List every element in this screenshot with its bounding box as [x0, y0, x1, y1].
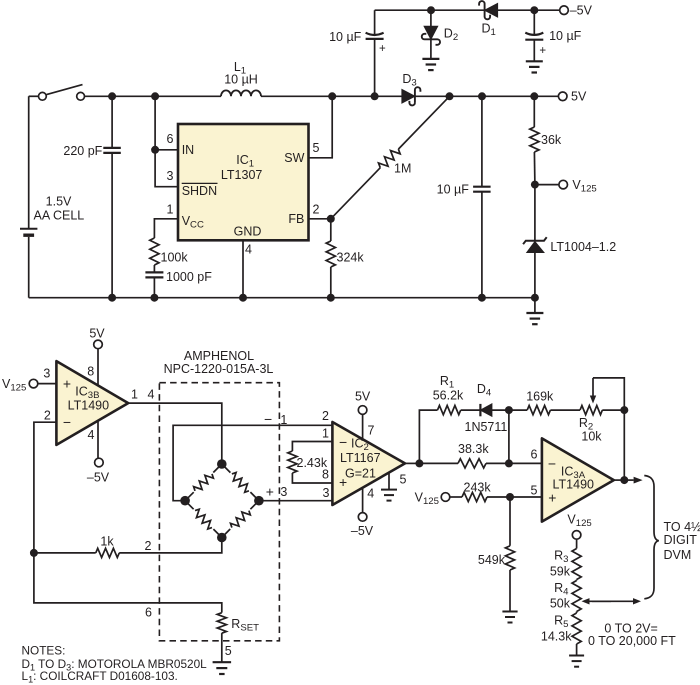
wire V125 stub — [535, 184, 559, 186]
svg-text:LT1004–1.2: LT1004–1.2 — [550, 240, 616, 254]
capacitor C3 10uF — [437, 182, 491, 196]
pin 3 label — [167, 169, 174, 183]
op-amp IC2 LT1167 — [332, 422, 405, 505]
wire ground rail — [29, 297, 535, 299]
ground 549k — [502, 612, 517, 623]
conn pin6 label — [145, 605, 152, 619]
svg-text:−: − — [264, 411, 272, 427]
wire R4-R5 — [576, 612, 578, 614]
wire 243k to pin5 — [487, 496, 542, 498]
potentiometer R2 10k — [579, 406, 603, 444]
wire IN pin — [155, 149, 178, 151]
terminal V125 243k — [415, 490, 450, 507]
pin1 label ic3b — [131, 387, 138, 401]
ic3a pin6 label — [531, 448, 538, 462]
node FB — [327, 215, 335, 223]
ground C2 — [526, 61, 543, 72]
resistor 324k — [326, 241, 364, 267]
resistor R1 56.2k — [433, 374, 464, 415]
svg-text:56.2k: 56.2k — [433, 389, 464, 403]
svg-text:4: 4 — [148, 387, 155, 401]
svg-text:−: − — [339, 434, 347, 450]
wire cap2 bottom — [533, 40, 535, 62]
conn pin5 label — [225, 644, 232, 658]
wire ic2 pin5 — [388, 473, 390, 490]
plus sign C2 — [539, 45, 546, 57]
wire cap1 top — [374, 10, 376, 34]
wire battery bottom — [28, 237, 30, 298]
svg-text:10 µF: 10 µF — [329, 30, 362, 44]
wire IN/SHDN branch — [155, 96, 178, 186]
wire 36k top — [533, 96, 535, 127]
wire 5V rail right — [415, 95, 558, 97]
terminal -5V ic3b — [87, 458, 110, 485]
wire 5V rail left — [85, 95, 221, 97]
wire RG top — [292, 442, 332, 452]
capacitor 1000pF — [145, 270, 212, 284]
resistor R5 14.3k — [541, 613, 581, 644]
wire SW pin — [309, 96, 333, 158]
svg-text:3: 3 — [43, 367, 50, 381]
svg-text:−: − — [63, 414, 71, 430]
wire D4 down — [508, 410, 510, 463]
wire to RSET — [34, 553, 222, 613]
node pin2/1k junction — [30, 549, 38, 557]
wire FB to 324k — [330, 219, 332, 241]
conn pin1 label — [280, 413, 287, 427]
terminal -5V ic2 — [351, 513, 374, 539]
zener LT1004-1.2 — [523, 237, 616, 254]
wire up to R1 row — [419, 410, 437, 463]
wire 1000pF to rail — [153, 277, 155, 297]
wire 100k to cap — [153, 265, 155, 272]
node pin6 junction — [505, 459, 513, 467]
wire 1M lower — [331, 168, 381, 219]
R2 wiper arrow — [590, 378, 596, 404]
svg-text:5V: 5V — [89, 326, 105, 340]
wire zener top — [534, 185, 536, 241]
wire ic2 pin7 — [362, 414, 364, 439]
wire pin3 — [38, 383, 57, 385]
wire R3-R4 — [576, 580, 578, 581]
node gnd x112 — [108, 294, 116, 302]
svg-text:1: 1 — [280, 413, 287, 427]
svg-text:0 TO 20,000 FT: 0 TO 20,000 FT — [588, 634, 676, 648]
ic3a pin5 label — [531, 484, 538, 498]
diode D1 — [479, 1, 498, 38]
node V125 — [531, 181, 539, 189]
pin 4 label — [245, 243, 252, 257]
wire VCC pin — [154, 219, 178, 238]
node bridge bottom — [217, 533, 227, 543]
wire RSET to gnd — [221, 633, 223, 662]
ground ladder — [569, 656, 584, 667]
node bridge left — [180, 496, 190, 506]
svg-text:+: + — [539, 45, 546, 57]
wire pin8 — [97, 349, 99, 386]
svg-text:4: 4 — [367, 486, 374, 500]
svg-text:+: + — [63, 375, 71, 391]
node pin5 junction — [506, 493, 514, 501]
svg-text:1000 pF: 1000 pF — [166, 270, 212, 284]
svg-text:6: 6 — [145, 605, 152, 619]
svg-text:5: 5 — [225, 644, 232, 658]
svg-text:+: + — [548, 489, 556, 505]
wire pin2 to 1k — [34, 552, 96, 554]
wire RG bottom — [292, 473, 332, 483]
svg-text:4: 4 — [88, 428, 95, 442]
plus label — [266, 484, 274, 500]
node ic2 out — [415, 459, 423, 467]
node R2 out — [620, 406, 628, 414]
wire cap3 bottom — [481, 192, 483, 298]
ic2 pin4 label — [367, 486, 374, 500]
wire D2 to ground — [430, 39, 432, 59]
svg-text:243k: 243k — [464, 480, 492, 494]
svg-text:GND: GND — [234, 224, 262, 238]
svg-text:−: − — [548, 455, 556, 471]
node IN junction — [151, 146, 159, 154]
terminal -5V — [560, 4, 593, 18]
svg-text:SW: SW — [284, 151, 304, 165]
svg-text:–5V: –5V — [570, 4, 593, 18]
minus label — [264, 411, 272, 427]
svg-text:5: 5 — [313, 141, 320, 155]
wire top -5V rail — [375, 9, 560, 11]
svg-text:+: + — [379, 43, 386, 55]
capacitor C1 10uF — [329, 30, 384, 44]
wire FB pin — [309, 218, 331, 220]
ic2 pin2 label — [322, 409, 329, 423]
wire V125 to 243k — [450, 496, 462, 498]
node rail x482 — [478, 92, 486, 100]
ic2 pin3 label — [323, 486, 330, 500]
wire out to 38.3k — [419, 462, 458, 464]
svg-text:LT1490: LT1490 — [553, 478, 595, 492]
node rail x534 — [530, 92, 538, 100]
svg-text:1k: 1k — [100, 535, 114, 549]
node bridge right — [254, 496, 264, 506]
ground D2 — [422, 59, 439, 70]
node rail x374 — [371, 92, 379, 100]
wire rail to ground sym — [534, 298, 536, 313]
svg-text:G=21: G=21 — [345, 466, 376, 480]
svg-text:IN: IN — [182, 143, 195, 157]
resistor 100k — [150, 238, 189, 265]
wire R2 right — [602, 409, 624, 411]
wire 220pF bottom — [111, 153, 113, 298]
node top-left junction — [427, 6, 435, 14]
conn pin2 label — [145, 539, 152, 553]
svg-text:1M: 1M — [394, 162, 411, 176]
svg-text:38.3k: 38.3k — [458, 442, 489, 456]
node gnd x534 — [531, 294, 539, 302]
svg-text:10 µH: 10 µH — [224, 73, 258, 87]
node top-right junction — [530, 6, 538, 14]
R4 wiper double arrow — [582, 598, 642, 604]
ic2 pin7 label — [368, 423, 375, 437]
svg-text:169k: 169k — [526, 390, 554, 404]
pin3 label — [43, 367, 50, 381]
diode D3 — [402, 72, 421, 106]
svg-text:1.5V: 1.5V — [46, 194, 72, 208]
svg-text:TO 4½: TO 4½ — [664, 520, 700, 534]
svg-text:5V: 5V — [571, 90, 587, 104]
resistor 2.43k — [288, 451, 328, 473]
op-amp U1 IC1 LT1307 box — [178, 124, 309, 240]
terminal 5V — [558, 90, 587, 104]
resistor 549k — [478, 546, 515, 570]
node D4 junction — [505, 406, 513, 414]
svg-text:4: 4 — [245, 243, 252, 257]
svg-text:LT1490: LT1490 — [68, 399, 110, 413]
wire pin2 — [34, 422, 57, 553]
svg-text:10 µF: 10 µF — [549, 29, 582, 43]
resistor R4 50k — [550, 581, 581, 612]
svg-text:AA CELL: AA CELL — [34, 209, 85, 223]
wire zener bottom — [534, 253, 536, 298]
svg-text:50k: 50k — [550, 596, 571, 610]
svg-text:NPC-1220-015A-3L: NPC-1220-015A-3L — [164, 362, 274, 376]
ground main — [526, 313, 543, 324]
node ic3a out — [620, 476, 628, 484]
notes text — [22, 644, 208, 685]
node gnd x330 — [327, 294, 335, 302]
resistor 38.3k — [458, 442, 489, 468]
ic2 pin5 label — [400, 472, 407, 486]
svg-text:5: 5 — [400, 472, 407, 486]
wire 549k top — [509, 497, 511, 546]
svg-text:DIGIT: DIGIT — [664, 533, 698, 547]
wire 169k to R2 — [550, 409, 580, 411]
wire battery top — [28, 96, 30, 228]
svg-text:1: 1 — [167, 203, 174, 217]
svg-text:3: 3 — [323, 486, 330, 500]
wire 1M upper — [398, 96, 449, 149]
svg-text:3: 3 — [167, 169, 174, 183]
svg-text:324k: 324k — [337, 250, 365, 264]
svg-text:10 µF: 10 µF — [437, 182, 470, 196]
node rail x449 — [446, 92, 454, 100]
node rail x112 — [108, 92, 116, 100]
svg-text:8: 8 — [87, 364, 94, 378]
wire R2 loop — [593, 378, 624, 410]
wire cap1 bottom — [374, 39, 376, 96]
ground RSET — [213, 662, 232, 674]
resistor 1M — [377, 146, 411, 176]
resistor 36k — [530, 127, 562, 152]
svg-text:NOTES:: NOTES: — [22, 644, 66, 658]
wire ladder top — [576, 539, 578, 548]
pin 5 label — [313, 141, 320, 155]
node rail x155 — [151, 92, 159, 100]
wire D4 to 169k — [491, 409, 528, 411]
resistor R3 59k — [550, 548, 581, 579]
node gnd x243 — [239, 294, 247, 302]
svg-text:5: 5 — [531, 484, 538, 498]
terminal V125 — [559, 178, 597, 195]
wire 324k to rail — [330, 267, 332, 298]
resistor 243k — [462, 480, 491, 501]
svg-text:LT1167: LT1167 — [340, 451, 381, 465]
wire ic2 out — [405, 462, 419, 464]
svg-text:220 pF: 220 pF — [63, 144, 102, 158]
wire D2 top — [430, 10, 432, 28]
svg-text:6: 6 — [167, 132, 174, 146]
resistor RSET — [217, 613, 259, 634]
svg-text:2: 2 — [44, 409, 51, 423]
svg-text:14.3k: 14.3k — [541, 629, 572, 643]
bridge arm top-right — [222, 464, 259, 501]
svg-text:L1: COILCRAFT D01608-103.: L1: COILCRAFT D01608-103. — [22, 669, 178, 685]
svg-text:DVM: DVM — [664, 548, 692, 562]
svg-text:36k: 36k — [541, 133, 562, 147]
brace to DVM — [644, 476, 659, 599]
svg-text:2.43k: 2.43k — [297, 456, 328, 470]
op-amp IC3B LT1490 — [56, 361, 128, 445]
wire 220pF top — [111, 96, 113, 148]
wire ic3b output — [128, 403, 222, 464]
svg-text:5V: 5V — [355, 390, 371, 404]
svg-text:2: 2 — [313, 203, 320, 217]
label 0 TO 2V= — [604, 621, 657, 635]
wire GND pin — [242, 240, 244, 297]
svg-text:1: 1 — [322, 426, 329, 440]
terminal 5V ic2 — [355, 390, 371, 415]
svg-text:6: 6 — [531, 448, 538, 462]
arrow ic3a out — [624, 477, 642, 484]
wire cap3 top — [481, 96, 483, 186]
wire R2 down to out — [623, 410, 625, 480]
wire ladder bottom — [576, 644, 578, 656]
pin 2 label — [313, 203, 320, 217]
battery 1.5V AA — [20, 194, 84, 235]
svg-text:10k: 10k — [581, 429, 602, 443]
bridge arm bot-right — [222, 501, 259, 538]
inductor L1 — [221, 60, 261, 96]
svg-text:2: 2 — [322, 409, 329, 423]
wire bridge minus — [173, 425, 332, 500]
svg-text:FB: FB — [288, 212, 304, 226]
wire 36k bottom — [533, 152, 536, 185]
wire pin4 ic3b — [97, 421, 99, 459]
wire 38.3k to pin6 — [486, 462, 542, 464]
pin4conn label — [148, 387, 155, 401]
terminal V125 ladder — [567, 513, 591, 540]
svg-text:2: 2 — [145, 539, 152, 553]
svg-text:59k: 59k — [550, 564, 571, 578]
resistor 1k — [96, 535, 120, 558]
diode D2 — [422, 26, 458, 45]
ic2 pin8 label — [322, 467, 329, 481]
terminal 5V ic3b — [89, 326, 105, 348]
bridge arm bot-left — [185, 501, 222, 538]
terminal V125 in3 — [2, 377, 38, 394]
wire R1 to D4 — [461, 409, 480, 411]
svg-text:–5V: –5V — [87, 471, 110, 485]
node gnd x154 — [150, 294, 158, 302]
wire 1k to bridge — [119, 538, 222, 553]
wire ic3a out — [614, 479, 625, 481]
conn pin3 label — [280, 485, 287, 499]
svg-text:1N5711: 1N5711 — [465, 420, 508, 434]
svg-text:1: 1 — [131, 387, 138, 401]
ground ic2 pin5 — [381, 490, 397, 501]
wire 5V rail mid — [261, 95, 403, 97]
pin 6 label — [167, 132, 174, 146]
pin 1 label — [167, 203, 174, 217]
pin8 label — [87, 364, 94, 378]
node gnd x482 — [478, 294, 486, 302]
svg-text:3: 3 — [280, 485, 287, 499]
diode D4 1N5711 — [465, 382, 508, 434]
svg-text:549k: 549k — [478, 553, 506, 567]
bridge arm top-left — [185, 464, 222, 501]
svg-text:–5V: –5V — [351, 524, 374, 538]
op-amp IC3A LT1490 — [542, 438, 614, 521]
plus sign C1 — [379, 43, 386, 55]
label TO 4.5 DIGIT DVM — [664, 520, 700, 562]
switch S1 — [29, 85, 85, 101]
svg-text:100k: 100k — [161, 251, 189, 265]
svg-text:+: + — [266, 484, 274, 500]
svg-text:7: 7 — [368, 423, 375, 437]
pin2 label — [44, 409, 51, 423]
svg-text:SHDN: SHDN — [182, 184, 217, 198]
node bridge top — [217, 459, 227, 469]
capacitor 220pF — [63, 144, 120, 158]
wire bridge plus — [259, 500, 333, 502]
wire ic2 pin4 — [362, 488, 364, 513]
resistor 169k — [526, 390, 554, 415]
wire 549k bottom — [509, 570, 511, 612]
svg-text:LT1307: LT1307 — [221, 168, 263, 182]
wire cap2 top — [533, 10, 535, 34]
node rail x332 — [328, 92, 336, 100]
label 0 TO 20000 FT — [588, 634, 676, 648]
Amphenol bridge dashed box — [159, 349, 279, 641]
ic2 pin1 label — [322, 426, 329, 440]
pin4 label ic3b — [88, 428, 95, 442]
capacitor C2 10uF — [525, 29, 581, 43]
